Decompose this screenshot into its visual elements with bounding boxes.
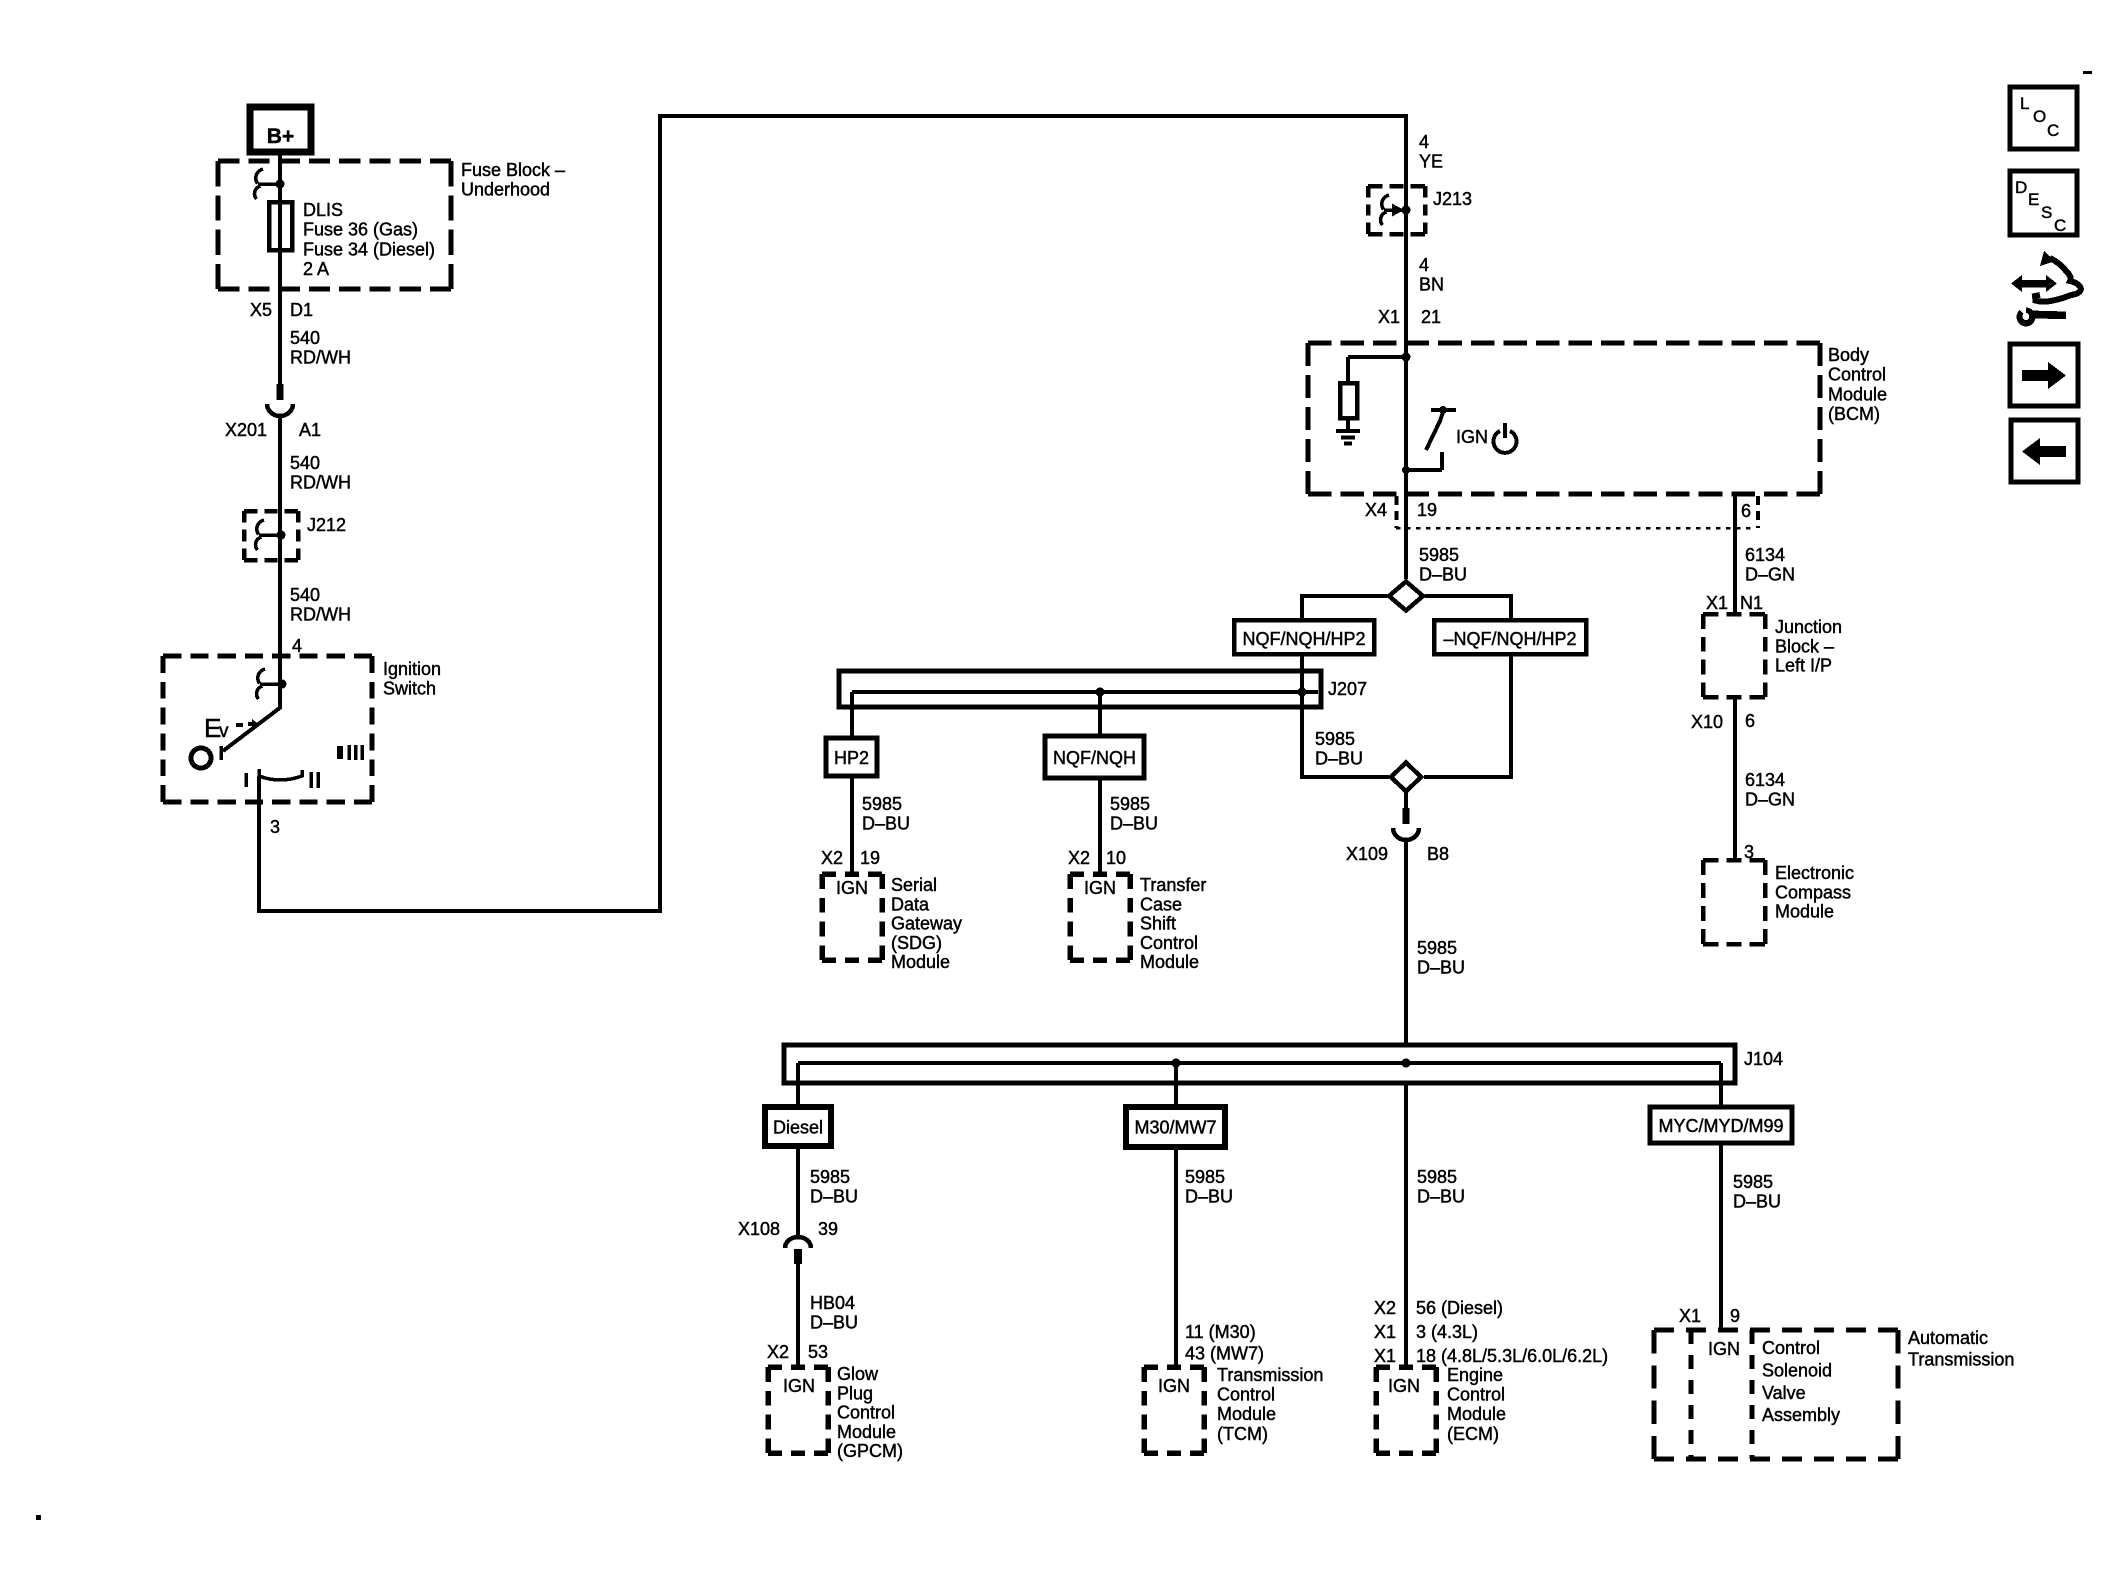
svg-text:B8: B8 (1427, 844, 1449, 864)
svg-text:Left I/P: Left I/P (1775, 656, 1832, 676)
svg-text:J207: J207 (1328, 679, 1367, 699)
svg-text:X1: X1 (1374, 1346, 1396, 1366)
svg-text:Serial: Serial (891, 875, 937, 895)
svg-text:53: 53 (808, 1342, 828, 1362)
svg-text:Control: Control (837, 1403, 895, 1423)
svg-text:6: 6 (1741, 501, 1751, 521)
svg-text:Block –: Block – (1775, 636, 1834, 656)
svg-text:2 A: 2 A (303, 259, 329, 279)
svg-text:X1: X1 (1378, 307, 1400, 327)
svg-text:D–BU: D–BU (862, 813, 910, 833)
svg-text:D–BU: D–BU (1315, 748, 1363, 768)
svg-text:Automatic: Automatic (1908, 1328, 1988, 1348)
svg-text:5985: 5985 (1185, 1167, 1225, 1187)
svg-text:J104: J104 (1744, 1049, 1783, 1069)
svg-text:540: 540 (290, 453, 320, 473)
svg-text:D1: D1 (290, 300, 313, 320)
svg-text:Switch: Switch (383, 678, 436, 698)
svg-text:C: C (2054, 216, 2066, 235)
svg-text:540: 540 (290, 585, 320, 605)
svg-text:X5: X5 (250, 300, 272, 320)
svg-text:RD/WH: RD/WH (290, 604, 351, 624)
svg-text:Fuse Block –: Fuse Block – (461, 160, 565, 180)
svg-text:Glow: Glow (837, 1364, 879, 1384)
svg-text:Body: Body (1828, 345, 1869, 365)
svg-text:Control: Control (1140, 933, 1198, 953)
svg-text:v: v (219, 721, 229, 742)
svg-text:Solenoid: Solenoid (1762, 1360, 1832, 1380)
svg-text:RD/WH: RD/WH (290, 472, 351, 492)
svg-text:Control: Control (1762, 1338, 1820, 1358)
svg-text:L: L (2020, 94, 2029, 113)
svg-text:5985: 5985 (1315, 729, 1355, 749)
svg-text:X1: X1 (1679, 1306, 1701, 1326)
svg-text:Transmission: Transmission (1908, 1350, 2014, 1370)
svg-text:(SDG): (SDG) (891, 933, 942, 953)
svg-text:18 (4.8L/5.3L/6.0L/6.2L): 18 (4.8L/5.3L/6.0L/6.2L) (1416, 1346, 1608, 1366)
svg-text:D–GN: D–GN (1745, 564, 1795, 584)
svg-text:Ignition: Ignition (383, 659, 441, 679)
svg-text:Module: Module (891, 952, 950, 972)
svg-text:Diesel: Diesel (773, 1118, 823, 1138)
svg-text:Module: Module (1828, 384, 1887, 404)
svg-text:X1: X1 (1706, 593, 1728, 613)
svg-text:X2: X2 (1374, 1298, 1396, 1318)
svg-text:Module: Module (1140, 952, 1199, 972)
svg-text:10: 10 (1106, 848, 1126, 868)
svg-text:X2: X2 (1068, 848, 1090, 868)
svg-text:4: 4 (1419, 132, 1429, 152)
svg-text:J212: J212 (307, 515, 346, 535)
svg-text:Control: Control (1828, 365, 1886, 385)
svg-text:5985: 5985 (1733, 1172, 1773, 1192)
svg-text:(ECM): (ECM) (1447, 1424, 1499, 1444)
svg-text:N1: N1 (1740, 593, 1763, 613)
svg-text:4: 4 (292, 636, 302, 656)
svg-text:(GPCM): (GPCM) (837, 1441, 903, 1461)
svg-text:D–BU: D–BU (1110, 813, 1158, 833)
svg-text:Electronic: Electronic (1775, 863, 1854, 883)
svg-text:IGN: IGN (1158, 1376, 1190, 1396)
svg-text:Junction: Junction (1775, 617, 1842, 637)
svg-text:Engine: Engine (1447, 1365, 1503, 1385)
svg-text:MYC/MYD/M99: MYC/MYD/M99 (1658, 1116, 1783, 1136)
svg-text:IGN: IGN (783, 1376, 815, 1396)
svg-text:19: 19 (860, 848, 880, 868)
svg-text:Shift: Shift (1140, 914, 1176, 934)
svg-text:–NQF/NQH/HP2: –NQF/NQH/HP2 (1443, 629, 1576, 649)
svg-text:5985: 5985 (810, 1167, 850, 1187)
svg-text:Plug: Plug (837, 1383, 873, 1403)
svg-text:X2: X2 (767, 1342, 789, 1362)
svg-text:IGN: IGN (1456, 427, 1488, 447)
svg-text:Control: Control (1447, 1385, 1505, 1405)
svg-text:X108: X108 (738, 1219, 780, 1239)
svg-text:Underhood: Underhood (461, 179, 550, 199)
svg-text:X109: X109 (1346, 844, 1388, 864)
svg-text:Fuse 34 (Diesel): Fuse 34 (Diesel) (303, 239, 435, 259)
svg-text:39: 39 (818, 1219, 838, 1239)
svg-text:(BCM): (BCM) (1828, 404, 1880, 424)
svg-text:Compass: Compass (1775, 882, 1851, 902)
svg-text:56 (Diesel): 56 (Diesel) (1416, 1298, 1503, 1318)
svg-text:Module: Module (1775, 902, 1834, 922)
svg-text:6134: 6134 (1745, 770, 1785, 790)
svg-text:Data: Data (891, 894, 930, 914)
svg-text:Valve: Valve (1762, 1383, 1806, 1403)
svg-text:D–GN: D–GN (1745, 789, 1795, 809)
svg-text:J213: J213 (1433, 189, 1472, 209)
svg-text:5985: 5985 (1110, 794, 1150, 814)
svg-text:6: 6 (1745, 711, 1755, 731)
svg-text:NQF/NQH/HP2: NQF/NQH/HP2 (1242, 629, 1365, 649)
svg-text:(TCM): (TCM) (1217, 1424, 1268, 1444)
svg-text:IGN: IGN (1084, 878, 1116, 898)
svg-text:D–BU: D–BU (1417, 957, 1465, 977)
svg-text:Module: Module (1447, 1404, 1506, 1424)
svg-text:A1: A1 (299, 420, 321, 440)
svg-text:D–BU: D–BU (1417, 1186, 1465, 1206)
svg-text:540: 540 (290, 328, 320, 348)
svg-text:21: 21 (1421, 307, 1441, 327)
svg-text:RD/WH: RD/WH (290, 347, 351, 367)
svg-text:Module: Module (837, 1422, 896, 1442)
svg-text:X2: X2 (821, 848, 843, 868)
svg-text:C: C (2047, 121, 2059, 140)
svg-text:HP2: HP2 (834, 748, 869, 768)
svg-text:HB04: HB04 (810, 1293, 855, 1313)
svg-text:O: O (2033, 107, 2046, 126)
svg-text:X10: X10 (1691, 712, 1723, 732)
svg-text:6134: 6134 (1745, 545, 1785, 565)
svg-text:Case: Case (1140, 894, 1182, 914)
svg-text:11 (M30): 11 (M30) (1185, 1322, 1256, 1342)
svg-text:4: 4 (1419, 255, 1429, 275)
svg-text:D–BU: D–BU (1733, 1191, 1781, 1211)
svg-text:3: 3 (270, 817, 280, 837)
svg-text:X4: X4 (1365, 500, 1387, 520)
svg-text:IGN: IGN (836, 878, 868, 898)
svg-text:Assembly: Assembly (1762, 1405, 1840, 1425)
svg-text:Transmission: Transmission (1217, 1365, 1323, 1385)
svg-text:NQF/NQH: NQF/NQH (1053, 748, 1136, 768)
svg-text:5985: 5985 (1417, 938, 1457, 958)
svg-text:5985: 5985 (1419, 545, 1459, 565)
svg-text:IGN: IGN (1708, 1339, 1740, 1359)
svg-text:M30/MW7: M30/MW7 (1134, 1118, 1216, 1138)
svg-text:19: 19 (1417, 500, 1437, 520)
svg-text:D–BU: D–BU (810, 1312, 858, 1332)
svg-text:YE: YE (1419, 151, 1443, 171)
svg-text:D–BU: D–BU (810, 1186, 858, 1206)
svg-text:X201: X201 (225, 420, 267, 440)
svg-text:3: 3 (1744, 842, 1754, 862)
svg-text:Transfer: Transfer (1140, 875, 1206, 895)
svg-text:X1: X1 (1374, 1322, 1396, 1342)
svg-text:D: D (2015, 178, 2027, 197)
svg-text:D–BU: D–BU (1185, 1186, 1233, 1206)
svg-text:3 (4.3L): 3 (4.3L) (1416, 1322, 1478, 1342)
svg-text:BN: BN (1419, 274, 1444, 294)
svg-text:E: E (2028, 190, 2039, 209)
svg-text:Module: Module (1217, 1404, 1276, 1424)
svg-text:S: S (2041, 203, 2052, 222)
svg-text:D–BU: D–BU (1419, 564, 1467, 584)
svg-text:Gateway: Gateway (891, 914, 962, 934)
svg-text:9: 9 (1730, 1306, 1740, 1326)
svg-text:DLIS: DLIS (303, 200, 343, 220)
svg-text:B+: B+ (267, 125, 294, 148)
svg-text:43 (MW7): 43 (MW7) (1185, 1344, 1264, 1364)
svg-text:Fuse 36 (Gas): Fuse 36 (Gas) (303, 220, 418, 240)
svg-text:IGN: IGN (1388, 1376, 1420, 1396)
svg-text:5985: 5985 (1417, 1167, 1457, 1187)
svg-text:5985: 5985 (862, 794, 902, 814)
svg-text:Control: Control (1217, 1385, 1275, 1405)
